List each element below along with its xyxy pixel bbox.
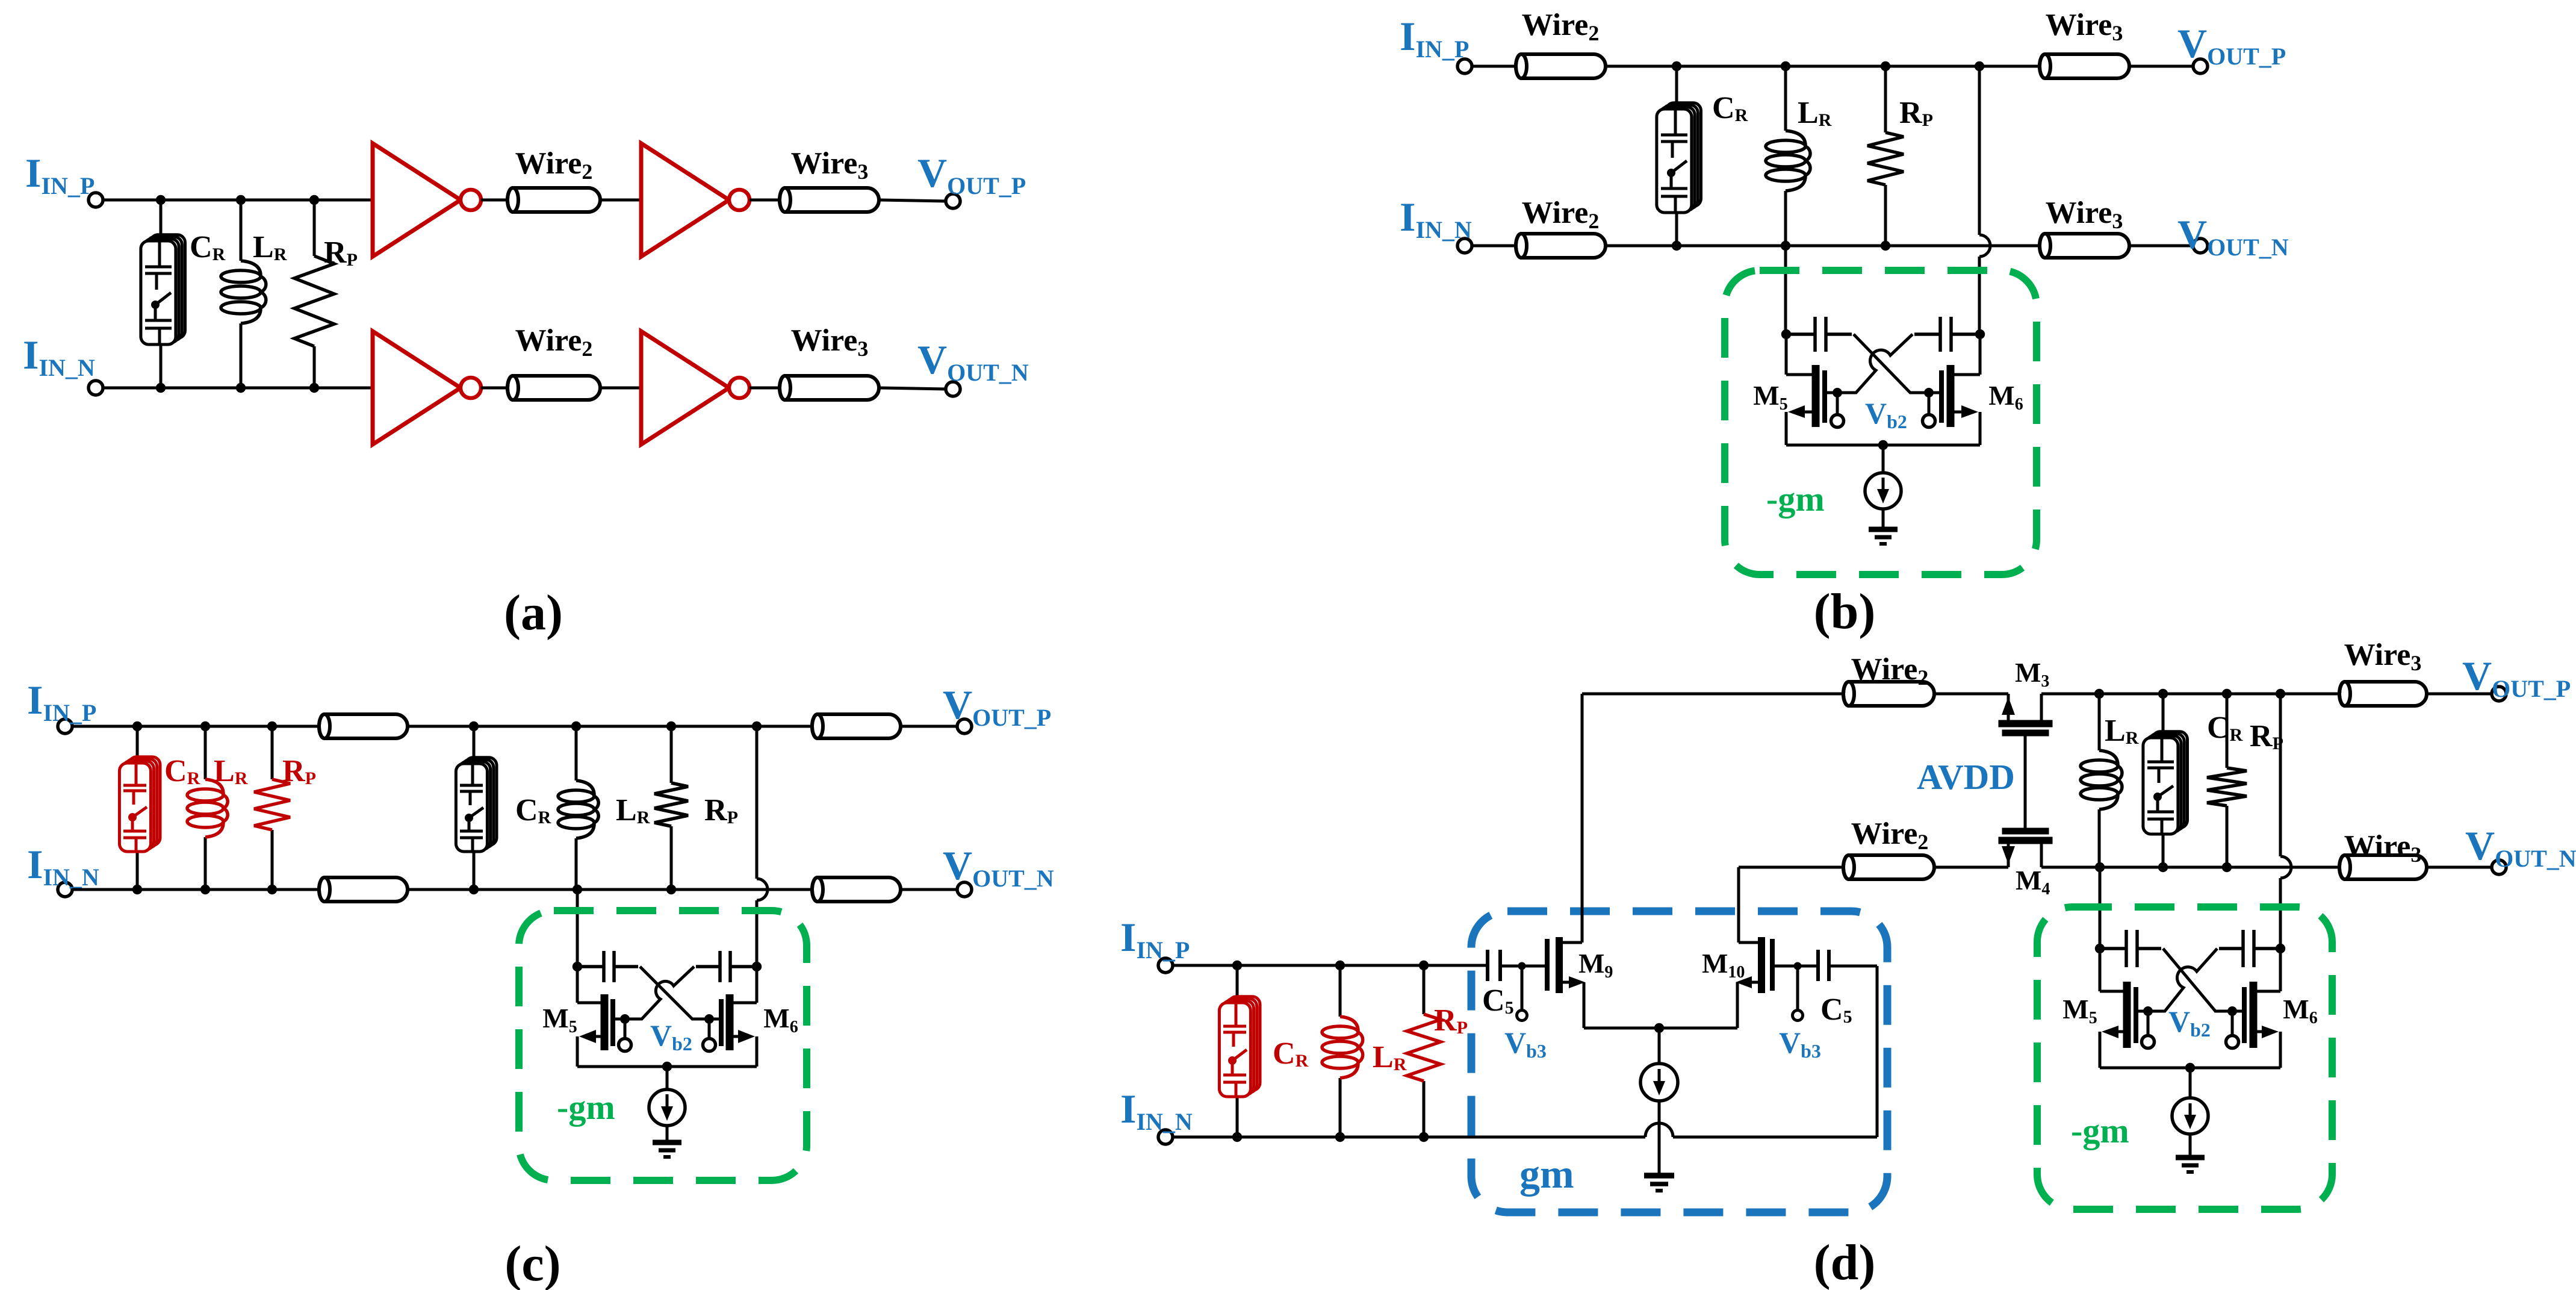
svg-text:Vb2: Vb2 [1865,396,1907,432]
wire I_IN_P to Wire2 (b) [1472,65,1516,68]
wire to V_OUT_P (c) [901,725,957,728]
subfigure (a) differential inverter-chain amplifier [23,143,1029,641]
svg-text:VOUT_N: VOUT_N [943,843,1054,892]
node red R_P bottom (c) [267,885,277,894]
transistor M4 (d) [1999,828,2052,867]
svg-text:VOUT_P: VOUT_P [2177,20,2286,70]
svg-text:Wire2: Wire2 [515,146,593,184]
node tail (d) [2185,1063,2195,1073]
wire C_R leads (a) [160,200,163,241]
node M5 gate (b) [1833,388,1842,397]
svg-text:RP: RP [2250,719,2283,753]
box -gm green dashed (b) [1725,270,2037,575]
wire M10 drain up (d) [1737,867,1740,943]
svg-text:CR: CR [515,793,551,827]
node L_R bottom (a) [236,383,246,393]
wire right C5 column (d) [1876,966,1879,1137]
current source gm (d) [1640,1064,1678,1101]
svg-text:M10: M10 [1702,948,1745,982]
svg-text:CR: CR [1273,1036,1309,1071]
wire Wire3 to V_OUT_N (b) [2129,245,2193,248]
wire M9 gate bias (d) [1521,966,1524,1011]
svg-text:CR: CR [1712,91,1748,125]
wire Wire2 P (b) [1516,54,1606,78]
svg-text:LR: LR [616,793,650,827]
wire tail to current source (d) [2189,1068,2192,1098]
current source I1 (c) [649,1089,685,1126]
wire C_R leads (c) [473,726,476,764]
wire Wire2 top (a) [507,188,600,212]
wire I_IN_P rail (d) [1173,964,1488,967]
capacitor cross-coupling right (b) [1914,317,1980,352]
gate bias circle M5 (c) [619,1039,632,1052]
inverter A3 (a) [373,331,461,444]
svg-text:(b): (b) [1814,584,1876,640]
wire Wire2 to inverter A4 (a) [600,387,641,390]
wire P rail left (c) [72,725,319,728]
svg-text:RP: RP [282,754,316,788]
node L_R top (c) [571,721,581,731]
svg-text:Wire2: Wire2 [1522,196,1600,233]
resistor R_P (a) [313,200,316,256]
wire Wire2 N (d) [1843,855,1934,879]
resistor red R_P (c) [271,726,274,779]
wire N rail mid (c) [408,888,812,891]
terminal I_IN_N (a) [88,381,103,395]
node C_R top (d) [2158,689,2168,699]
wire right column upper (b) [1978,66,1981,235]
terminal I_IN_P (d) [1158,958,1173,973]
node C_R top (c) [469,721,479,731]
wire hop over N rail (b) [1979,235,1990,257]
wire C5 to M9 gate (d) [1500,965,1545,968]
wire M10 drain line (d) [1739,866,1843,869]
transistor M3 (d) [1999,694,2052,736]
ground gm (d) [1644,1176,1674,1191]
wire right column to -gm (d) [2279,878,2282,949]
subfigure (c) two-stage resonator with -gm cell [27,677,1054,1290]
svg-text:Wire3: Wire3 [2344,638,2422,675]
capacitor C_R (b) [1657,103,1701,213]
node C_R top (a) [156,195,166,205]
terminal I_IN_N (d) [1158,1130,1173,1144]
svg-text:(a): (a) [504,585,563,641]
wire Wire3 to V_OUT_N (d) [2427,866,2492,869]
node cap junction left (c) [573,962,582,971]
wire tail to current source (d) [1658,1028,1661,1064]
wire P out rail (d) [2041,693,2339,696]
node M10 gate (d) [1794,962,1802,970]
node right column top (c) [752,721,762,731]
wire N rail left (c) [72,888,319,891]
gate bias circle M9 (d) [1517,1011,1527,1021]
node tail (c) [662,1062,672,1071]
svg-text:M6: M6 [1988,380,2023,414]
svg-text:Wire2: Wire2 [515,323,593,361]
inductor red L_R (c) [204,726,207,779]
svg-text:LR: LR [214,754,248,788]
gate bias circle M6 (d) [2226,1036,2239,1049]
svg-text:C5: C5 [1482,983,1514,1018]
node tail (b) [1878,440,1888,450]
wire hop over tail line (d) [1645,1123,1673,1137]
wire current source to ground (c) [666,1126,669,1142]
svg-text:M6: M6 [763,1003,798,1036]
transistor M5 (d) [2100,949,2148,1068]
terminal V_OUT_P (a) [946,194,960,208]
wire Wire2 P (d) [1843,682,1934,706]
svg-text:VOUT_N: VOUT_N [2465,823,2576,872]
box -gm green dashed (c) [519,911,807,1180]
gate bias circle M10 (d) [1793,1011,1803,1021]
capacitor cross-coupling left (d) [2100,930,2161,967]
svg-text:M5: M5 [2062,994,2097,1027]
terminal I_IN_P (c) [58,719,72,734]
wire Wire3 top (a) [780,188,879,212]
svg-text:RP: RP [704,793,738,827]
transistor M5 (b) [1786,334,1837,445]
node L_R bottom (c) [573,885,582,894]
wire inverter A3 to Wire2 (a) [481,387,507,390]
node M6 gate (b) [1924,388,1934,397]
node C_R bottom (a) [156,383,166,393]
wire Wire3 to V_OUT_P (b) [2129,65,2193,68]
capacitor cross-coupling right (c) [696,951,757,982]
wire Wire3 P (d) [2339,682,2427,706]
wire N rail (b) [1606,245,2040,248]
wire hop over N rail (c) [757,879,768,900]
wire M10 gate bias (d) [1796,966,1799,1011]
svg-text:Vb3: Vb3 [1779,1026,1821,1062]
wire Wire2 to M4 (d) [1934,866,2008,869]
wire left column to -gm (d) [2099,867,2102,949]
gate bias circle M6 (b) [1923,415,1935,428]
svg-text:LR: LR [2105,714,2139,748]
wire tail to current source (c) [666,1067,669,1089]
wire top drain line (d) [1582,693,1843,696]
node red C_R top (c) [132,721,142,731]
wire inverter A1 to Wire2 (a) [481,199,507,202]
resistor R_P (d) [2226,694,2229,768]
node C_R bottom (c) [469,885,479,894]
svg-text:M3: M3 [2015,657,2049,691]
wire red C_R leads (c) [136,726,139,763]
wire hop over N rail (d) [2280,856,2291,878]
svg-text:M4: M4 [2016,865,2050,899]
svg-text:CR: CR [190,230,226,264]
wire Wire P right cylinder (c) [812,714,901,738]
svg-text:IIN_P: IIN_P [1400,13,1469,63]
node R_P bottom (d) [2222,862,2232,872]
svg-text:IIN_N: IIN_N [23,332,95,381]
wire current source to ground (b) [1882,509,1885,529]
wire cross-coupling diagonal to M5 gate with hop (d) [2151,949,2217,1011]
node M9 gate (d) [1518,962,1526,970]
svg-text:VOUT_N: VOUT_N [917,337,1029,386]
wire I_IN_N to Wire2 (b) [1472,245,1516,248]
resistor R_P (c) [670,726,673,783]
terminal I_IN_N (c) [58,882,72,897]
node R_P bottom (a) [309,383,319,393]
node gm tail (d) [1654,1023,1664,1033]
inductor L_R (b) [1784,66,1787,131]
box -gm green dashed (d) [2037,907,2332,1209]
svg-text:RP: RP [1899,96,1933,130]
wire inverter A2 to Wire3 (a) [750,199,780,202]
terminal V_OUT_N (c) [957,882,972,897]
wire current source to ground (d) [1658,1101,1661,1176]
node red C_R bottom (d) [1232,1132,1242,1142]
gate bias circle M5 (b) [1831,415,1844,428]
wire cross-coupling diagonal to M6 gate (c) [640,967,706,1019]
wire Wire N right cylinder (c) [812,877,901,902]
transistor M5 (c) [577,967,625,1067]
node red L_R bottom (d) [1335,1132,1345,1142]
svg-text:-gm: -gm [557,1088,615,1127]
capacitor cross-coupling left (c) [577,951,638,982]
subfigure (b) resonator with cross-coupled -gm cell [1400,8,2289,640]
svg-text:(c): (c) [504,1236,560,1290]
capacitor C5 left (d) [1488,950,1500,981]
transistor M6 (d) [2232,949,2280,1068]
svg-text:Wire3: Wire3 [2046,8,2123,45]
svg-text:Vb2: Vb2 [650,1018,692,1055]
node L_R top (a) [236,195,246,205]
svg-text:C5: C5 [1820,992,1852,1027]
node right column top (d) [2276,689,2285,699]
wire gm tail (d) [1584,1027,1737,1030]
svg-text:M9: M9 [1578,948,1613,982]
svg-text:IIN_N: IIN_N [1120,1086,1193,1135]
wire red C_R leads (d) [1236,965,1239,1003]
wire right column to -gm (c) [756,900,759,967]
svg-text:M5: M5 [542,1003,577,1036]
svg-text:gm: gm [1519,1151,1574,1197]
wire I_IN_P rail (a) [103,199,373,202]
box gm blue dashed (d) [1471,911,1887,1212]
inductor L_R (c) [575,726,578,781]
gate bias circle M6 (c) [703,1039,716,1052]
node L_R top (b) [1781,61,1790,71]
ground (d) [2176,1158,2205,1172]
wire tail rail (b) [1786,444,1980,447]
wire tail rail (c) [577,1065,757,1068]
transistor M9 (d) [1547,937,1584,1028]
svg-text:LR: LR [253,230,287,264]
svg-text:Wire3: Wire3 [791,146,869,184]
svg-text:LR: LR [1798,96,1832,130]
current source I1 (d) [2172,1098,2208,1134]
svg-text:VOUT_P: VOUT_P [943,682,1051,731]
wire P rail mid (c) [408,725,812,728]
node red C_R bottom (c) [132,885,142,894]
wire Wire3 to V_OUT_P (d) [2427,693,2492,696]
terminal V_OUT_P (b) [2193,59,2208,73]
node R_P top (d) [2222,689,2232,699]
inverter A4 (a) [641,331,729,444]
wire Wire3 to V_OUT_P (a) [879,200,946,201]
wire Wire P left cylinder (c) [319,714,408,738]
node cap junction right (d) [2276,944,2285,953]
svg-text:-gm: -gm [2071,1111,2129,1150]
svg-text:M6: M6 [2283,994,2317,1027]
wire inverter A4 to Wire3 (a) [750,387,780,390]
svg-text:LR: LR [1373,1040,1407,1074]
wire N out rail (d) [2041,866,2339,869]
gate bias circle M5 (d) [2142,1036,2155,1049]
svg-text:M5: M5 [1753,380,1787,414]
wire right column upper (d) [2279,694,2282,856]
wire I_IN_N rail left (d) [1173,1136,1645,1139]
node R_P top (a) [309,195,319,205]
svg-text:Wire3: Wire3 [2046,196,2123,233]
svg-text:Wire3: Wire3 [2344,829,2422,867]
wire Wire3 P (b) [2040,54,2129,78]
node cap junction right (b) [1975,329,1985,339]
subfigure (d) gm stage with cascode and resonator [1120,638,2576,1290]
capacitor C_R (d) [2143,732,2188,834]
wire Wire2 to M3 (d) [1934,693,2008,696]
node R_P bottom (c) [666,885,676,894]
svg-text:IIN_P: IIN_P [25,150,95,199]
node right column top (b) [1975,61,1984,71]
node M6 gate (c) [704,1014,714,1024]
node red R_P top (d) [1419,961,1429,970]
svg-text:RP: RP [324,235,358,270]
svg-text:VOUT_P: VOUT_P [917,150,1026,199]
svg-text:Wire2: Wire2 [1522,8,1600,45]
node cap junction left (d) [2095,944,2105,953]
node red L_R bottom (c) [200,885,210,894]
capacitor red C_R (d) [1219,997,1260,1097]
svg-text:-gm: -gm [1766,479,1825,519]
wire M9 drain up (d) [1581,694,1584,943]
svg-text:IIN_N: IIN_N [27,841,99,891]
svg-text:Wire3: Wire3 [791,323,869,361]
svg-text:CR: CR [164,754,200,788]
node C_R bottom (d) [2158,862,2168,872]
node M6 gate (d) [2227,1006,2237,1016]
terminal I_IN_N (b) [1457,238,1472,253]
wire C_R leads (d) [2162,694,2165,738]
inductor L_R (d) [2098,694,2101,750]
wire cross-coupling diagonal to M5 gate with hop (c) [628,967,694,1019]
node cap junction left (b) [1781,329,1791,339]
transistor M6 (b) [1929,334,1980,445]
wire I_IN_N rail (a) [103,387,373,390]
node red R_P bottom (d) [1419,1132,1429,1142]
svg-text:CR: CR [2207,711,2243,745]
wire Wire3 N (d) [2339,855,2427,879]
resistor R_P (b) [1884,66,1887,132]
resistor red R_P (d) [1423,965,1426,1014]
node C_R bottom (b) [1672,241,1681,251]
wire I_IN_N rail right (d) [1673,1136,1877,1139]
svg-text:IIN_N: IIN_N [1400,194,1472,243]
node L_R bottom (b) [1781,241,1790,251]
wire tail rail (d) [2100,1067,2280,1070]
capacitor C_R (c) [456,758,497,852]
node R_P bottom (b) [1881,241,1890,251]
terminal V_OUT_N (d) [2492,860,2506,874]
svg-text:Wire2: Wire2 [1851,817,1929,854]
transistor M10 (d) [1737,937,1772,1028]
capacitor C5 right (d) [1818,950,1829,981]
svg-text:VOUT_N: VOUT_N [2177,211,2289,261]
svg-text:AVDD: AVDD [1917,757,2015,797]
transistor M6 (c) [709,967,757,1067]
wire M3 M4 gate line (d) [2024,736,2027,828]
svg-text:Vb3: Vb3 [1504,1026,1547,1062]
node cap junction right (c) [752,962,762,971]
wire Wire2 N (b) [1516,234,1606,258]
node R_P top (b) [1881,61,1890,71]
terminal V_OUT_N (b) [2193,238,2208,253]
node M5 gate (c) [620,1014,630,1024]
wire to V_OUT_N (c) [901,888,957,891]
terminal I_IN_P (b) [1457,59,1472,73]
node L_R bottom (d) [2095,862,2105,872]
svg-text:Wire2: Wire2 [1851,652,1929,690]
svg-text:Vb2: Vb2 [2168,1005,2211,1041]
capacitor red C_R (c) [119,757,160,852]
wire cross-coupling diagonal to M6 gate (b) [1854,334,1925,393]
terminal V_OUT_N (a) [946,382,960,396]
wire left column to -gm (c) [576,890,579,967]
ground (c) [653,1142,681,1157]
svg-text:RP: RP [1434,1003,1468,1038]
node red L_R top (c) [200,721,210,731]
capacitor cross-coupling right (d) [2219,930,2280,967]
node red R_P top (c) [267,721,277,731]
capacitor cross-coupling left (b) [1786,317,1852,352]
node L_R top (d) [2094,689,2104,699]
wire Wire3 N (b) [2040,234,2129,258]
inverter A1 (a) [373,143,461,257]
inverter A2 (a) [641,143,729,257]
node R_P top (c) [666,721,676,731]
wire Wire2 to inverter A2 (a) [600,199,641,202]
wire Wire N left cylinder (c) [319,877,408,902]
wire P rail (b) [1606,65,2040,68]
svg-text:VOUT_P: VOUT_P [2462,653,2571,702]
wire cross-coupling diagonal to M6 gate (d) [2163,949,2229,1011]
wire Wire3 bottom (a) [780,376,879,400]
capacitor C_R (a) [141,235,185,344]
svg-text:IIN_P: IIN_P [27,677,96,726]
node C_R top (b) [1672,61,1681,71]
terminal I_IN_P (a) [88,193,103,207]
current source I1 (b) [1865,473,1901,509]
wire M10 gate (d) [1772,965,1818,968]
terminal V_OUT_P (c) [957,719,972,734]
inductor red L_R (d) [1339,965,1342,1017]
wire right column to -gm (b) [1978,257,1981,334]
wire C_R leads (b) [1675,66,1678,109]
svg-text:(d): (d) [1814,1235,1876,1290]
wire right column upper (c) [756,726,759,879]
wire current source to ground (d) [2189,1134,2192,1158]
wire tail to current source (b) [1882,445,1885,473]
wire Wire3 to V_OUT_N (a) [879,388,946,389]
svg-text:IIN_P: IIN_P [1120,914,1190,964]
wire Wire2 bottom (a) [507,376,600,400]
ground (b) [1869,529,1898,544]
node M5 gate (d) [2143,1006,2153,1016]
inductor L_R (a) [240,200,243,261]
terminal V_OUT_P (d) [2492,687,2506,701]
node red L_R top (d) [1335,961,1345,970]
